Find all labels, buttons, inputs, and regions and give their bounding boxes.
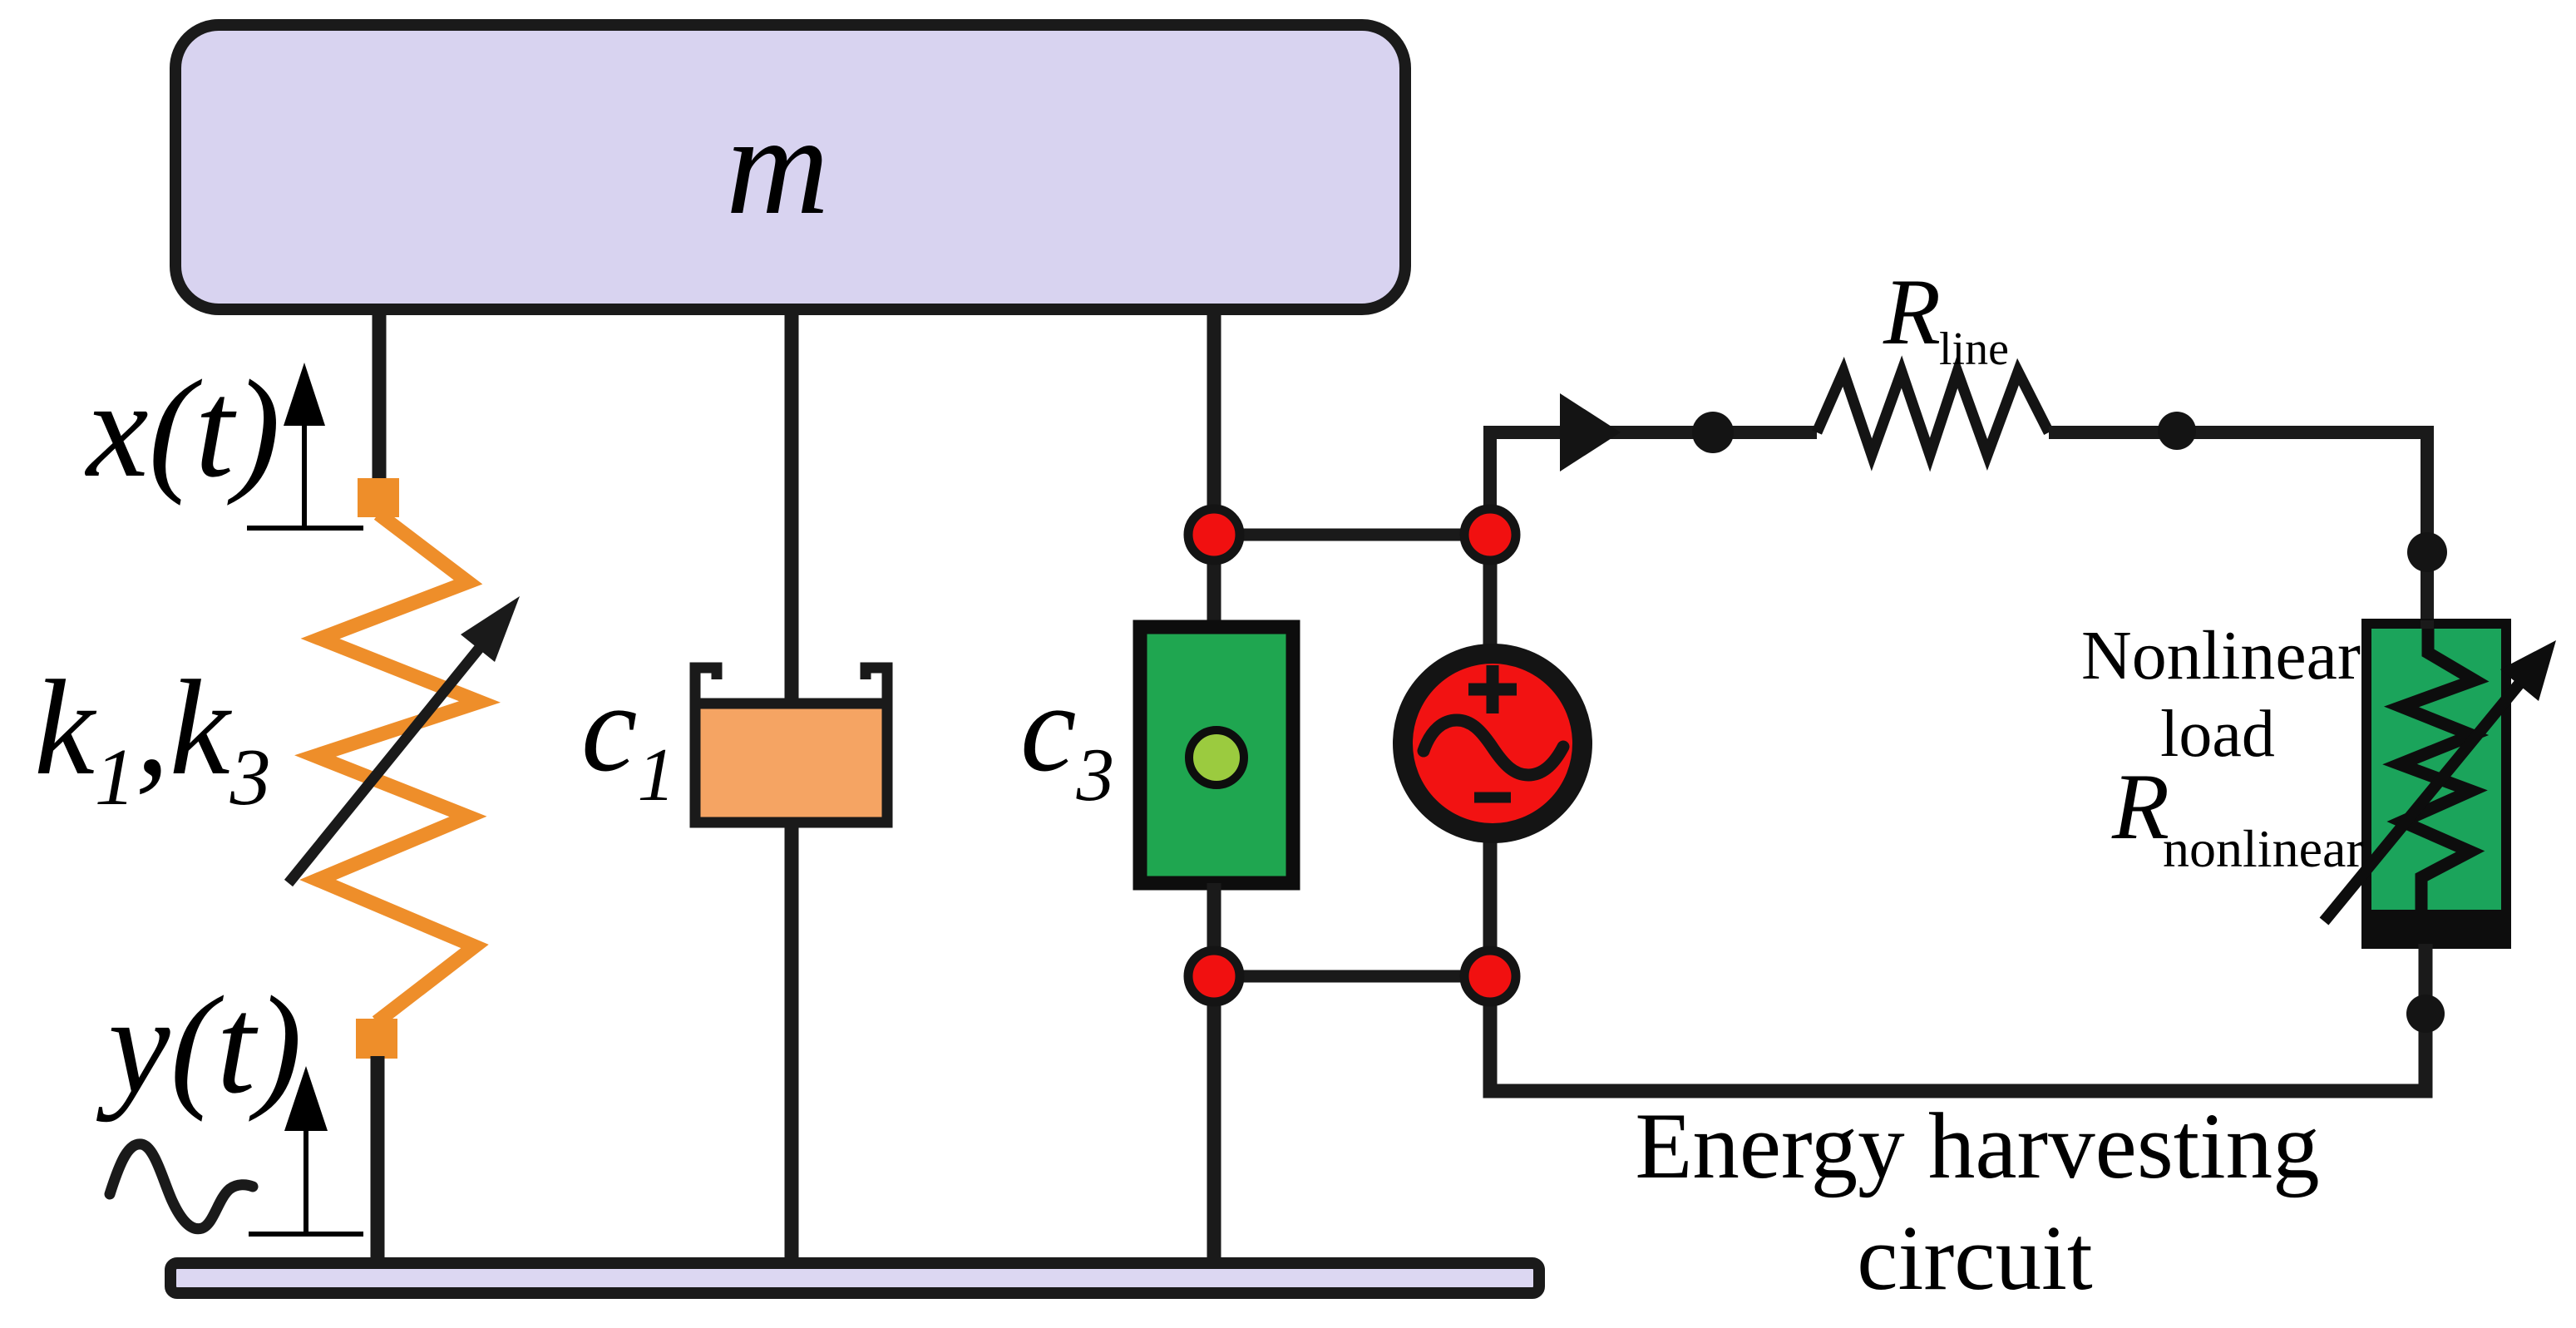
displacement arrow x(t) bbox=[247, 363, 363, 529]
damper C1 body bbox=[695, 703, 887, 822]
svg-text:circuit: circuit bbox=[1857, 1207, 2093, 1310]
damper C1 cup left ear bbox=[695, 668, 717, 703]
nonlinear load box R_nonlinear bbox=[2366, 624, 2506, 944]
svg-text:Energy harvesting: Energy harvesting bbox=[1635, 1094, 2319, 1198]
wire bottom node link bbox=[1214, 970, 1490, 983]
svg-text:m: m bbox=[726, 86, 829, 244]
wire load bottom to corner bbox=[1490, 944, 2425, 1091]
svg-text:load: load bbox=[2160, 698, 2275, 771]
spring k1,k3 top terminal bbox=[358, 478, 399, 517]
load internal zigzag bbox=[2400, 624, 2475, 910]
wire top node to R_line bbox=[1490, 432, 1817, 535]
mass block m bbox=[175, 25, 1405, 309]
wire from damper to base bbox=[785, 822, 799, 1263]
svg-text:x(t): x(t) bbox=[84, 352, 280, 506]
load diagonal arrow bbox=[2324, 640, 2556, 921]
spring k1,k3 bottom terminal bbox=[356, 1019, 397, 1059]
svg-text:Nonlinear: Nonlinear bbox=[2081, 617, 2361, 694]
node top-right (red) bbox=[1464, 509, 1516, 560]
wire from spring to base bbox=[371, 1056, 385, 1263]
nonlinearity arrow through spring bbox=[289, 596, 520, 883]
current direction arrowhead bbox=[1560, 393, 1621, 471]
svg-text:line: line bbox=[1939, 323, 2009, 375]
wire R_line to load bbox=[2049, 432, 2427, 657]
wire C3 to bottom node bbox=[1207, 883, 1221, 976]
wire source bottom to node bbox=[1483, 833, 1498, 976]
spring k1,k3 zigzag bbox=[315, 514, 480, 1022]
wire top node link bbox=[1214, 529, 1490, 541]
node top-left (red) bbox=[1188, 509, 1240, 560]
junction dot above load bbox=[2407, 532, 2447, 572]
wire bottom node to base bbox=[1207, 976, 1221, 1263]
ground plate bbox=[170, 1263, 1539, 1293]
node bottom-right (red) bbox=[1464, 950, 1516, 1002]
wire load top bbox=[2421, 620, 2434, 629]
wire from mass to node A bbox=[1207, 309, 1221, 627]
damper C1 cup right ear bbox=[866, 668, 887, 703]
AC voltage source bbox=[1403, 654, 1582, 833]
base excitation sine symbol bbox=[110, 1144, 253, 1229]
base excitation arrow y(t) bbox=[249, 1066, 363, 1234]
svg-text:y(t): y(t) bbox=[96, 968, 302, 1123]
svg-text:R: R bbox=[1883, 260, 1941, 364]
node bottom-left (red) bbox=[1188, 950, 1240, 1002]
wire from mass to damper C1 bbox=[785, 309, 799, 703]
piezoelectric element C3 bbox=[1140, 627, 1293, 883]
resistor R_line bbox=[1817, 372, 2049, 455]
wire from mass to spring bbox=[373, 309, 387, 482]
junction dot right of R_line bbox=[2158, 412, 2196, 450]
svg-text:nonlinear: nonlinear bbox=[2163, 819, 2364, 878]
svg-text:R: R bbox=[2111, 755, 2169, 859]
junction dot below load bbox=[2406, 995, 2445, 1033]
junction dot left of R_line bbox=[1692, 412, 1734, 453]
wire node to source top bbox=[1483, 535, 1498, 654]
